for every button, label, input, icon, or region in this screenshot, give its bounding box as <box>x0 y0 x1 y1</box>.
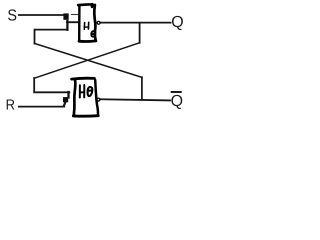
svg-text:Q: Q <box>171 14 183 31</box>
svg-text:R: R <box>6 98 15 114</box>
svg-text:Q: Q <box>171 93 183 110</box>
svg-text:S: S <box>7 7 17 24</box>
